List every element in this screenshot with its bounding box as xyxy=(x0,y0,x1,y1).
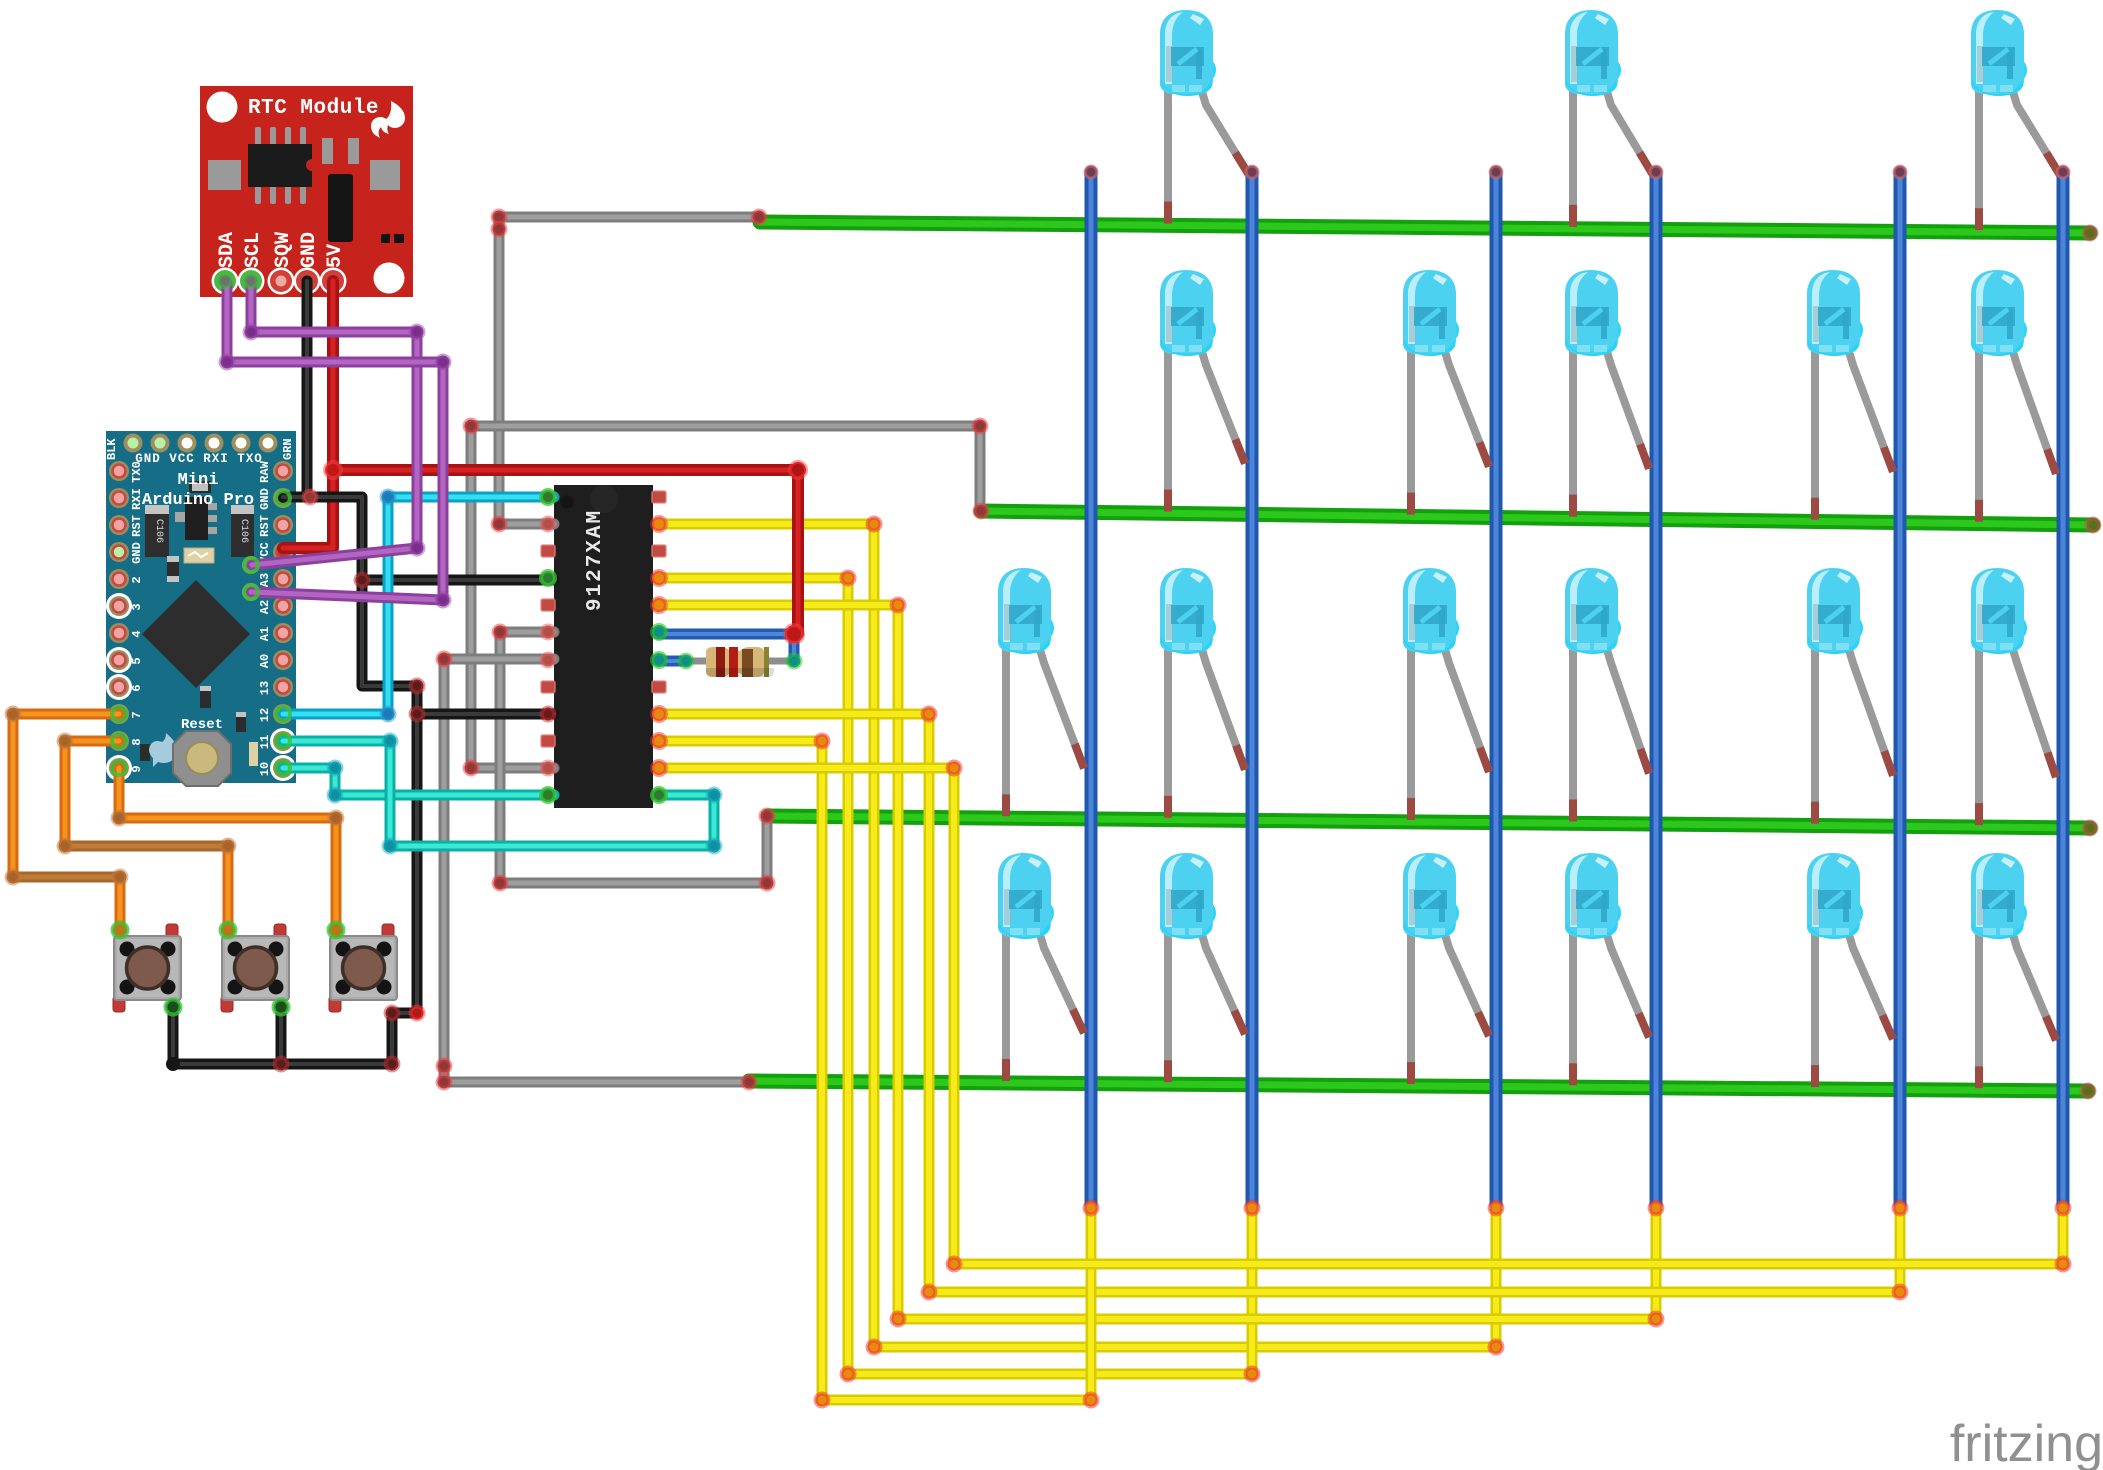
svg-text:13: 13 xyxy=(258,681,272,695)
svg-text:Mini: Mini xyxy=(178,471,219,490)
svg-text:A1: A1 xyxy=(258,627,272,641)
svg-text:GND VCC RXI TXO: GND VCC RXI TXO xyxy=(135,452,263,466)
svg-text:4: 4 xyxy=(130,630,144,637)
svg-text:3: 3 xyxy=(130,603,144,610)
svg-text:10: 10 xyxy=(258,762,272,776)
svg-text:RXI: RXI xyxy=(130,488,144,510)
svg-text:SQW: SQW xyxy=(272,232,295,268)
svg-text:7: 7 xyxy=(130,711,144,718)
svg-text:fritzing: fritzing xyxy=(1950,1415,2103,1470)
svg-text:9127XAM: 9127XAM xyxy=(584,509,607,611)
svg-text:C106: C106 xyxy=(153,519,164,543)
svg-text:11: 11 xyxy=(258,735,272,749)
svg-text:9: 9 xyxy=(130,765,144,772)
svg-text:8: 8 xyxy=(130,738,144,745)
svg-text:RST: RST xyxy=(130,515,144,537)
svg-text:TX0: TX0 xyxy=(130,461,144,483)
svg-text:C106: C106 xyxy=(238,519,249,543)
svg-text:2: 2 xyxy=(130,576,144,583)
svg-text:GND: GND xyxy=(298,232,321,268)
svg-text:SCL: SCL xyxy=(242,232,265,268)
svg-text:A3: A3 xyxy=(258,573,272,587)
svg-text:GND: GND xyxy=(130,542,144,564)
svg-text:5V: 5V xyxy=(324,244,347,268)
svg-text:A0: A0 xyxy=(258,654,272,668)
svg-text:A2: A2 xyxy=(258,600,272,614)
svg-text:6: 6 xyxy=(130,684,144,691)
svg-text:Arduino Pro: Arduino Pro xyxy=(142,491,254,510)
svg-text:GND: GND xyxy=(258,488,272,510)
svg-text:RST: RST xyxy=(258,515,272,537)
svg-text:RAW: RAW xyxy=(258,460,272,482)
svg-text:RTC Module: RTC Module xyxy=(248,97,379,120)
svg-text:BLK: BLK xyxy=(105,438,119,460)
svg-text:12: 12 xyxy=(258,708,272,722)
svg-text:GRN: GRN xyxy=(281,438,295,460)
svg-text:SDA: SDA xyxy=(216,232,239,268)
svg-text:5: 5 xyxy=(130,657,144,664)
